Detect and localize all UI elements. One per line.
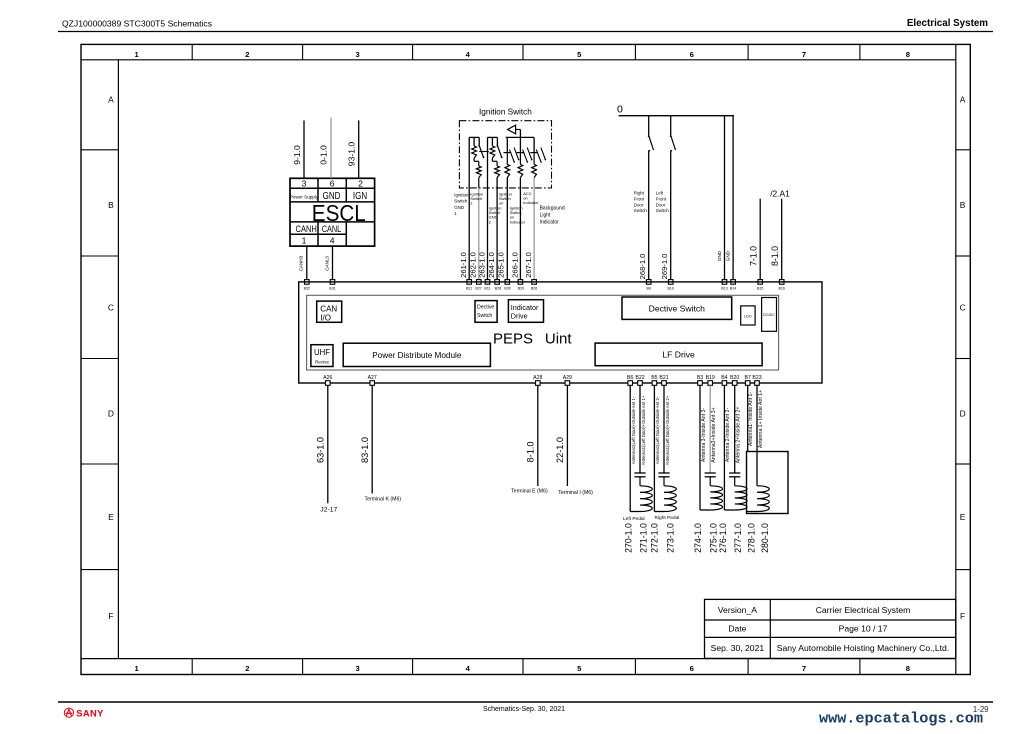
UHF Recive block <box>311 345 333 367</box>
svg-text:Ignition Switch: Ignition Switch <box>479 108 532 117</box>
svg-text:Uint: Uint <box>545 331 573 348</box>
capacitor <box>634 472 645 474</box>
svg-text:Right Pedal: Right Pedal <box>655 515 680 521</box>
antenna coil L <box>664 486 676 512</box>
svg-text:270-1.0: 270-1.0 <box>623 523 633 553</box>
svg-text:Indicator: Indicator <box>523 200 539 205</box>
pin B9 <box>646 280 651 285</box>
svg-text:264-1.0: 264-1.0 <box>487 252 496 278</box>
pin B16 <box>779 280 784 285</box>
svg-text:8: 8 <box>906 664 910 673</box>
svg-text:Carrier Electrical System: Carrier Electrical System <box>816 605 911 615</box>
svg-text:CANH3: CANH3 <box>299 255 304 271</box>
svg-text:274-1.0: 274-1.0 <box>693 523 703 553</box>
svg-text:E: E <box>960 512 966 522</box>
frame column divider <box>412 44 414 59</box>
svg-text:8: 8 <box>906 50 910 59</box>
svg-text:B27: B27 <box>475 286 481 290</box>
svg-text:Terminal K (M6): Terminal K (M6) <box>364 497 401 503</box>
antenna pair wires <box>699 385 701 510</box>
svg-text:0-1.0: 0-1.0 <box>319 145 329 165</box>
wire 267-1.0 lower (grey) <box>533 178 535 282</box>
svg-text:3: 3 <box>355 664 359 673</box>
wire join <box>724 509 734 511</box>
rotary blade <box>510 150 515 163</box>
wire 266-1.0 upper from triangle <box>519 130 521 153</box>
wire 266-1.0 lower <box>519 178 521 282</box>
svg-text:B16: B16 <box>778 286 784 290</box>
door switch on wire 269-1.0 <box>670 116 672 136</box>
svg-text:Terminal E (M6): Terminal E (M6) <box>511 489 548 495</box>
svg-text:7-1.0: 7-1.0 <box>749 246 759 266</box>
svg-text:272-1.0: 272-1.0 <box>649 523 659 553</box>
svg-text:6: 6 <box>330 179 335 189</box>
svg-text:280-1.0: 280-1.0 <box>760 523 770 553</box>
capacitor <box>658 472 669 474</box>
pin B13 <box>722 280 727 285</box>
svg-text:ESCL: ESCL <box>312 200 366 226</box>
svg-text:Dective: Dective <box>477 305 494 311</box>
svg-text:GND: GND <box>717 250 722 261</box>
pin B28 <box>495 280 500 285</box>
svg-text:Terminal I (M6): Terminal I (M6) <box>558 490 593 496</box>
svg-text:83-1.0: 83-1.0 <box>360 437 370 463</box>
ignition switch dashed enclosure <box>459 121 551 188</box>
svg-text:273-1.0: 273-1.0 <box>666 523 676 553</box>
rotary contact bar <box>517 152 525 154</box>
switch blade A <box>479 146 483 158</box>
pin B29 <box>518 280 523 285</box>
svg-text:1: 1 <box>302 236 307 246</box>
svg-text:Door: Door <box>634 202 644 207</box>
wire 267-1.0 upper <box>533 137 535 152</box>
svg-text:6: 6 <box>690 50 694 59</box>
svg-text:D: D <box>960 409 966 419</box>
svg-text:SANY: SANY <box>76 707 104 718</box>
footer rule <box>58 701 993 703</box>
svg-text:Electrical System: Electrical System <box>907 18 988 29</box>
antenna pair wires <box>723 385 725 510</box>
svg-text:266-1.0: 266-1.0 <box>510 252 519 278</box>
svg-text:269-1.0: 269-1.0 <box>660 254 669 280</box>
frame outer border <box>81 44 970 674</box>
svg-text:B14: B14 <box>730 286 736 290</box>
svg-text:Indicator: Indicator <box>540 220 560 226</box>
switch blade B <box>497 146 501 158</box>
svg-text:www.epcatalogs.com: www.epcatalogs.com <box>819 710 983 728</box>
svg-text:Antenna 2+Inside Ant 2+: Antenna 2+Inside Ant 2+ <box>736 407 742 464</box>
DC/DC block <box>762 298 777 332</box>
wire 8-1.0 <box>781 199 783 282</box>
pin B10 <box>668 280 673 285</box>
Indicator Drive block <box>508 300 543 323</box>
svg-text:B: B <box>108 200 114 210</box>
svg-text:262-1.0: 262-1.0 <box>469 252 478 278</box>
wire 7-1.0 <box>759 199 761 282</box>
svg-text:DC/DC: DC/DC <box>763 313 775 317</box>
svg-text:GND: GND <box>454 205 464 210</box>
svg-text:4: 4 <box>330 236 335 246</box>
svg-text:Front: Front <box>656 196 667 201</box>
svg-text:Antenna 3-Inside Ant 3-: Antenna 3-Inside Ant 3- <box>701 408 707 462</box>
frame row divider <box>81 463 118 465</box>
antenna coil L <box>710 486 722 510</box>
pin B30 <box>505 280 510 285</box>
wire 262-1.0 (grey below) <box>478 178 480 188</box>
resistor A2 <box>476 166 481 178</box>
LDO block <box>741 306 755 325</box>
PEPS unit outer box <box>299 282 822 383</box>
svg-text:3: 3 <box>355 50 359 59</box>
wire 265-1.0 upper <box>506 137 508 152</box>
svg-text:A: A <box>960 94 966 104</box>
frame left letter column line <box>117 60 119 659</box>
antenna coil 5 <box>757 486 769 512</box>
node 0 bus wire <box>619 115 734 117</box>
svg-text:B12: B12 <box>466 286 472 290</box>
svg-text:E: E <box>108 512 114 522</box>
svg-text:265-1.0: 265-1.0 <box>497 252 506 278</box>
frame bottom number-row line <box>81 658 956 660</box>
rotary blade <box>536 150 541 163</box>
svg-text:Version_A: Version_A <box>718 605 757 615</box>
wire CANH3 from ESCL pin 1 <box>306 246 308 282</box>
rotary contact bar <box>504 152 512 154</box>
svg-text:7: 7 <box>802 50 806 59</box>
ESCL connector block U-ESCL <box>290 178 375 246</box>
svg-text:B15: B15 <box>757 286 763 290</box>
Power Distribute Module block <box>343 343 490 366</box>
frame column divider <box>859 44 861 59</box>
pin B12 <box>467 280 472 285</box>
svg-text:Power Supply: Power Supply <box>290 194 319 199</box>
frame column divider <box>191 44 193 59</box>
svg-text:7: 7 <box>802 664 806 673</box>
svg-text:B11: B11 <box>484 286 490 290</box>
svg-text:Sep. 30, 2021: Sep. 30, 2021 <box>711 643 765 653</box>
svg-text:/2.A1: /2.A1 <box>770 189 790 199</box>
svg-text:UHF: UHF <box>314 348 330 357</box>
resistor on 266 <box>519 153 521 165</box>
wire join <box>630 511 640 513</box>
frame top number-row line <box>81 59 956 61</box>
svg-text:CANL: CANL <box>322 224 342 235</box>
header rule <box>58 31 993 33</box>
antenna pair wires <box>629 385 631 511</box>
svg-text:Antenna1(Left Door)+Outside An: Antenna1(Left Door)+Outside Ant 2+ <box>665 395 670 465</box>
svg-text:Antenna3+Inside Ant 3+: Antenna3+Inside Ant 3+ <box>711 407 717 462</box>
svg-text:C: C <box>960 303 966 313</box>
antenna group 5 box <box>747 452 789 514</box>
pin B15 <box>758 280 763 285</box>
svg-text:CANL3: CANL3 <box>324 256 329 271</box>
bracket group A <box>469 136 479 138</box>
wire CANL3 from ESCL pin 4 <box>332 246 334 282</box>
svg-text:263-1.0: 263-1.0 <box>477 252 486 278</box>
svg-text:Door: Door <box>656 202 666 207</box>
frame column divider <box>522 44 524 59</box>
svg-text:CANH: CANH <box>296 224 317 235</box>
svg-text:Antenna 2-Inside Ant 2-: Antenna 2-Inside Ant 2- <box>725 408 731 462</box>
svg-text:Dective Switch: Dective Switch <box>649 304 706 314</box>
indicator triangle <box>508 125 516 134</box>
svg-text:276-1.0: 276-1.0 <box>718 523 728 553</box>
svg-text:22-1.0: 22-1.0 <box>555 437 565 463</box>
wire 83-1.0 from A27 <box>371 385 373 493</box>
svg-text:F: F <box>108 611 113 621</box>
svg-text:B32: B32 <box>304 286 310 290</box>
svg-text:B31: B31 <box>329 286 335 290</box>
resistor B2 <box>495 166 500 178</box>
svg-text:LF Drive: LF Drive <box>662 350 695 360</box>
svg-text:Right: Right <box>634 191 645 196</box>
svg-text:B26: B26 <box>531 286 537 290</box>
frame column divider <box>302 44 304 59</box>
svg-text:I/O: I/O <box>320 314 331 323</box>
svg-text:Ignition: Ignition <box>454 193 469 198</box>
resistor B1 <box>490 146 495 158</box>
SANY logo mark <box>64 708 73 717</box>
wire join <box>700 509 710 511</box>
bracket right group <box>506 136 534 138</box>
svg-text:LDO: LDO <box>744 314 752 318</box>
svg-text:B: B <box>960 200 966 210</box>
svg-text:B29: B29 <box>518 286 524 290</box>
wire 93-1.0 to ESCL pin 2 <box>358 120 360 178</box>
frame row divider <box>81 255 118 257</box>
frame column divider <box>747 44 749 59</box>
bracket group B <box>488 136 498 138</box>
svg-text:8-1.0: 8-1.0 <box>770 246 780 266</box>
svg-text:Switch: Switch <box>634 208 647 213</box>
svg-text:Switch: Switch <box>454 199 467 204</box>
svg-text:C: C <box>108 303 114 313</box>
svg-text:Antenna 1+ Inside Ant 1+: Antenna 1+ Inside Ant 1+ <box>758 390 764 448</box>
svg-text:Light: Light <box>540 213 551 219</box>
svg-text:A: A <box>108 94 114 104</box>
wire 0-1.0 to ESCL pin 6 (grey) <box>330 118 332 179</box>
svg-text:0: 0 <box>617 104 623 116</box>
LF Drive block <box>595 343 762 366</box>
frame row divider <box>81 149 118 151</box>
svg-text:Page 10 / 17: Page 10 / 17 <box>839 624 888 634</box>
pin B27 <box>477 280 482 285</box>
wire 261-1.0 ignition GND1 <box>468 137 470 282</box>
antenna coil L <box>640 486 652 512</box>
svg-text:2: 2 <box>245 664 249 673</box>
svg-text:267-1.0: 267-1.0 <box>524 252 533 278</box>
svg-text:268-1.0: 268-1.0 <box>638 254 647 280</box>
antenna coil L <box>735 486 747 510</box>
svg-text:Antenna1(Left Door)-Outside An: Antenna1(Left Door)-Outside Ant 1- <box>631 396 636 464</box>
pin B32 <box>305 280 310 285</box>
capacitor <box>705 472 716 474</box>
svg-text:278-1.0: 278-1.0 <box>747 523 757 553</box>
wire 8-1.0 from A28 <box>537 385 539 486</box>
svg-text:63-1.0: 63-1.0 <box>315 437 325 463</box>
pin B26 <box>532 280 537 285</box>
svg-text:6: 6 <box>690 664 694 673</box>
svg-text:PEPS: PEPS <box>493 331 533 348</box>
svg-text:Left: Left <box>656 191 664 196</box>
svg-text:Date: Date <box>728 624 746 634</box>
antenna group 5 wires <box>747 385 749 451</box>
rotary contact bar <box>530 152 538 154</box>
svg-text:Schematics-Sep. 30, 2021: Schematics-Sep. 30, 2021 <box>483 706 565 713</box>
svg-text:Indicator: Indicator <box>510 219 526 224</box>
frame right letter column line <box>955 44 957 674</box>
svg-text:B10: B10 <box>667 286 673 290</box>
svg-text:B13: B13 <box>721 286 727 290</box>
Dective Switch small block <box>475 301 497 323</box>
svg-text:2: 2 <box>358 179 363 189</box>
PEPS unit inner box <box>307 295 779 370</box>
pin B31 <box>330 280 335 285</box>
pin B14 <box>731 280 736 285</box>
svg-text:F: F <box>960 611 965 621</box>
svg-text:277-1.0: 277-1.0 <box>733 523 743 553</box>
svg-text:on: on <box>499 201 503 206</box>
frame row divider <box>81 569 118 571</box>
wire 9-1.0 to ESCL pin 3 <box>303 120 305 178</box>
svg-text:B30: B30 <box>504 286 510 290</box>
wire 63-1.0 from A26 <box>327 385 329 503</box>
svg-text:GND: GND <box>725 250 730 261</box>
svg-text:B9: B9 <box>646 286 650 290</box>
svg-text:CAN: CAN <box>320 304 337 313</box>
svg-text:Recive: Recive <box>315 360 329 365</box>
rotary blade <box>523 150 528 163</box>
svg-text:Antenna1(Left Door)+Outside An: Antenna1(Left Door)+Outside Ant 1+ <box>641 395 646 465</box>
frame row divider <box>81 358 118 360</box>
wire 264-1.0 <box>496 178 498 282</box>
antenna pair wires <box>653 385 655 511</box>
svg-text:B28: B28 <box>495 286 501 290</box>
title block <box>705 599 956 658</box>
svg-text:8-1.0: 8-1.0 <box>525 442 535 463</box>
svg-text:Power Distribute Module: Power Distribute Module <box>372 351 462 360</box>
svg-text:271-1.0: 271-1.0 <box>639 523 649 553</box>
svg-text:J2-17: J2-17 <box>320 507 337 514</box>
svg-text:261-1.0: 261-1.0 <box>459 252 468 278</box>
wire GND 1 <box>724 116 726 282</box>
wire 263-1.0 ignition <box>487 137 489 282</box>
resistor on 267 <box>533 153 535 165</box>
frame column divider <box>634 44 636 59</box>
wire join <box>654 511 664 513</box>
wire 265-1.0 lower <box>506 178 508 282</box>
resistor A1 <box>472 146 477 158</box>
svg-text:9-1.0: 9-1.0 <box>292 145 302 165</box>
svg-text:Left Pedal: Left Pedal <box>623 516 645 522</box>
capacitor <box>729 472 740 474</box>
svg-text:Antenna1(Left Door)-Outside An: Antenna1(Left Door)-Outside Ant 2- <box>655 396 660 464</box>
svg-text:Front: Front <box>634 196 645 201</box>
wire GND 2 <box>732 116 734 282</box>
svg-text:Drive: Drive <box>511 312 528 321</box>
svg-text:93-1.0: 93-1.0 <box>346 142 356 167</box>
svg-text:QZJ100000389 STC300T5 Schemati: QZJ100000389 STC300T5 Schematics <box>62 19 212 29</box>
svg-text:2: 2 <box>245 50 249 59</box>
svg-text:Sany Automobile Hoisting Machi: Sany Automobile Hoisting Machinery Co.,L… <box>777 643 949 653</box>
svg-text:Switch: Switch <box>477 313 492 319</box>
svg-text:Backgound: Backgound <box>540 206 565 212</box>
resistor on 265 <box>506 153 508 165</box>
Dective Switch main block <box>622 297 732 319</box>
link line A-B <box>479 151 489 153</box>
CAN I/O block <box>317 301 342 322</box>
svg-text:Switch: Switch <box>656 208 669 213</box>
svg-text:Antenna1- Inside Ant 1-: Antenna1- Inside Ant 1- <box>748 392 754 446</box>
svg-text:D: D <box>108 409 114 419</box>
door switch on wire 268-1.0 <box>648 116 650 136</box>
pin B11 <box>485 280 490 285</box>
svg-text:3: 3 <box>302 179 307 189</box>
wire 22-1.0 from A29 <box>566 385 568 486</box>
